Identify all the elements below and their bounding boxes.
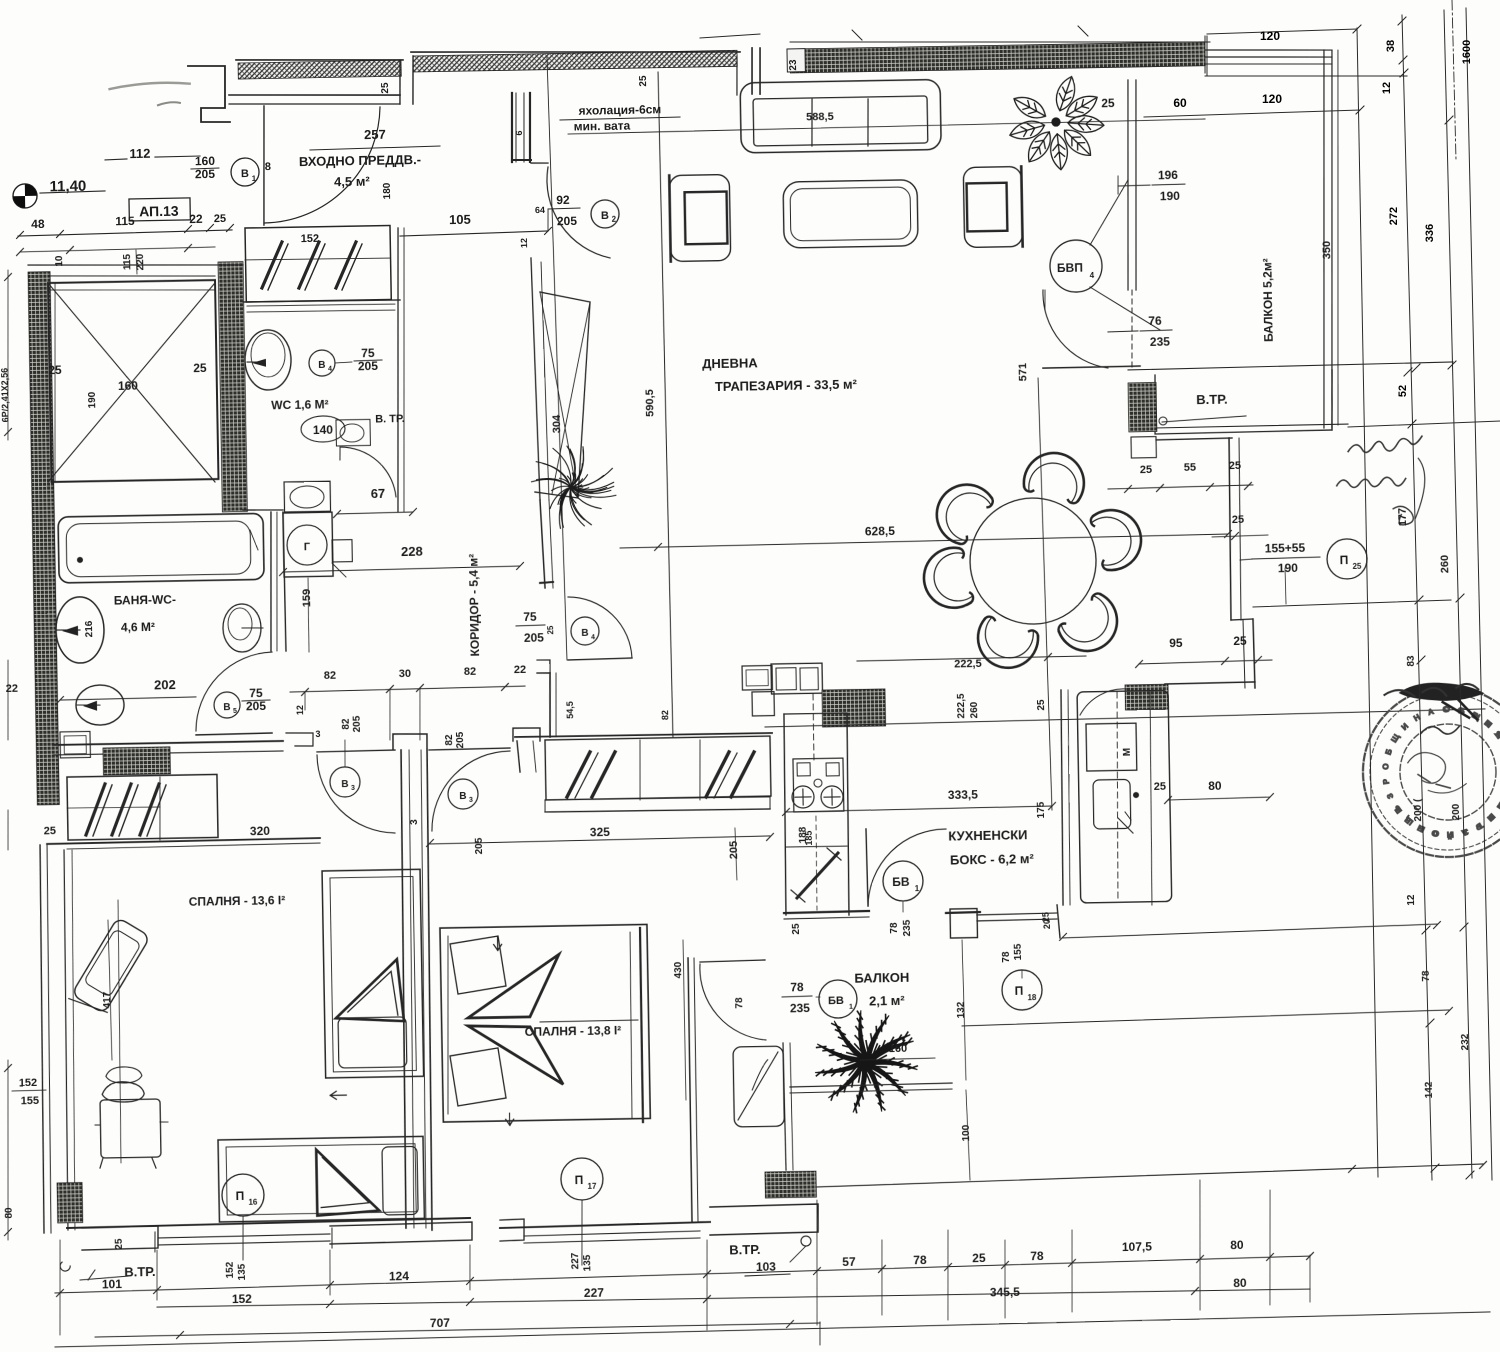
svg-text:80: 80 — [1208, 779, 1222, 793]
bath: toilet left — [55, 597, 104, 664]
dim row 25 55 25 — [1108, 485, 1253, 489]
svg-text:175: 175 — [1036, 801, 1047, 818]
svg-text:1: 1 — [849, 1004, 853, 1011]
svg-text:П: П — [235, 1189, 244, 1203]
balcony floor lines — [790, 1083, 952, 1087]
left bedroom door leaf+arc — [317, 750, 395, 752]
svg-text:25: 25 — [114, 1238, 125, 1250]
svg-text:333,5: 333,5 — [948, 788, 979, 803]
door circle BVP4 — [1050, 240, 1103, 293]
long bottom line y~1177 — [817, 1164, 1483, 1187]
svg-text:155+55: 155+55 — [1265, 541, 1306, 556]
kitchen: dashed axis in counter — [813, 694, 814, 760]
svg-text:80: 80 — [1233, 1276, 1247, 1290]
svg-text:60: 60 — [1173, 96, 1187, 110]
svg-text:10: 10 — [54, 255, 65, 267]
svg-text:180: 180 — [382, 182, 393, 199]
window ticks bottom1 — [154, 1232, 157, 1252]
svg-text:2,1 м²: 2,1 м² — [869, 993, 906, 1009]
svg-text:260: 260 — [1439, 555, 1451, 574]
bed vertical bedroom1 — [322, 869, 424, 1078]
door circle B3 right — [448, 779, 479, 810]
tick line under P25 — [1285, 568, 1286, 604]
door circle B2 — [591, 200, 619, 228]
svg-text:БАЛКОН: БАЛКОН — [854, 970, 909, 986]
svg-text:55: 55 — [1184, 462, 1196, 474]
svg-text:25: 25 — [638, 75, 649, 87]
svg-text:222,5: 222,5 — [954, 658, 982, 670]
shaft top lines — [28, 261, 243, 268]
svg-text:12: 12 — [1406, 894, 1417, 906]
svg-text:101: 101 — [102, 1277, 123, 1291]
small step right of bath wall — [286, 733, 313, 747]
svg-text:WC 1,6 М²: WC 1,6 М² — [271, 398, 329, 413]
svg-text:57: 57 — [842, 1255, 856, 1269]
door circle P18 — [1002, 970, 1043, 1011]
kitchen: west counter — [782, 714, 787, 915]
svg-text:350: 350 — [1321, 241, 1333, 260]
right grid vertical line C — [1444, 10, 1472, 1178]
bath: sink bottom — [60, 731, 90, 758]
svg-text:54,5: 54,5 — [565, 701, 575, 719]
svg-text:205: 205 — [455, 731, 466, 748]
curtain-wall tick top — [852, 30, 862, 40]
svg-text:1: 1 — [915, 884, 920, 893]
svg-text:ВХОДНО ПРЕДДВ.-: ВХОДНО ПРЕДДВ.- — [299, 152, 421, 169]
svg-text:25: 25 — [1036, 699, 1047, 711]
bath: lower toilet — [76, 685, 125, 726]
svg-text:80: 80 — [1230, 1238, 1244, 1252]
BVP4 leader lines — [1089, 180, 1129, 245]
axis line x658 (living west boundary) — [658, 72, 673, 737]
corridor sliding wardrobe — [545, 736, 771, 800]
wall: riser posts at x~755 — [751, 48, 753, 94]
svg-text:105: 105 — [449, 212, 471, 227]
bedroom1 armchair tilted — [69, 917, 152, 1019]
svg-text:590,5: 590,5 — [644, 389, 656, 417]
left armchair — [669, 174, 730, 261]
svg-text:417: 417 — [102, 991, 113, 1008]
balcony: slab edge line to right — [1205, 72, 1407, 79]
svg-text:78: 78 — [1030, 1249, 1044, 1263]
single bed bottom bedroom1 — [218, 1136, 424, 1222]
svg-text:235: 235 — [790, 1001, 811, 1015]
door B4 to living: leaf+arc — [568, 658, 632, 660]
svg-text:152: 152 — [232, 1292, 253, 1306]
bath: bidet — [223, 604, 262, 653]
living SE opening edge — [1043, 366, 1140, 368]
survey point symbol — [13, 184, 37, 208]
svg-text:12: 12 — [295, 705, 305, 715]
svg-text:430: 430 — [673, 961, 684, 978]
svg-text:202: 202 — [154, 677, 176, 692]
sliding wardrobe bold marks group1 — [566, 752, 591, 797]
svg-text:82: 82 — [341, 718, 352, 730]
svg-text:190: 190 — [1278, 561, 1299, 575]
svg-text:190: 190 — [1160, 189, 1181, 203]
ticks right grid — [1398, 17, 1406, 25]
svg-text:Г: Г — [304, 541, 311, 553]
svg-text:6Р/2,41Х2,56: 6Р/2,41Х2,56 — [0, 368, 10, 423]
svg-text:25: 25 — [546, 625, 555, 635]
svg-text:82: 82 — [660, 710, 670, 720]
balcony south wall step — [710, 1204, 819, 1235]
svg-text:БВ: БВ — [892, 875, 910, 889]
svg-text:115: 115 — [122, 253, 133, 270]
wardrobe bold marks — [85, 784, 106, 835]
partition wall between bedrooms — [398, 750, 410, 1228]
svg-text:3: 3 — [315, 729, 320, 739]
svg-text:120: 120 — [1262, 92, 1282, 106]
balcony: left glazing double line — [1124, 80, 1131, 290]
svg-text:В.ТР.: В.ТР. — [729, 1242, 761, 1258]
dim 628.5 line — [620, 534, 1228, 548]
svg-text:571: 571 — [1017, 363, 1029, 382]
dining table round — [969, 497, 1097, 625]
bedroom2 east wall — [687, 958, 692, 1222]
svg-text:8: 8 — [265, 161, 271, 173]
label 23 box on black band — [787, 49, 805, 72]
svg-text:23: 23 — [788, 59, 799, 71]
door circle P16 — [222, 1174, 265, 1217]
balcony hatch bottom — [765, 1171, 816, 1198]
svg-text:135: 135 — [237, 1263, 248, 1280]
svg-text:25: 25 — [193, 361, 207, 375]
bedroom2 west wall post — [513, 728, 540, 742]
right grid vertical line B — [1402, 15, 1432, 1180]
dim row above shaft — [20, 247, 215, 252]
svg-text:228: 228 — [401, 544, 423, 559]
svg-text:52: 52 — [1397, 385, 1409, 397]
svg-text:227: 227 — [584, 1286, 605, 1300]
VTR shaft right — [1154, 372, 1332, 434]
svg-text:БАЛКОН 5,2м²: БАЛКОН 5,2м² — [1260, 258, 1275, 342]
axis line x547 — [547, 57, 567, 660]
svg-text:200: 200 — [1451, 803, 1462, 820]
dim row A bottom — [55, 1256, 1311, 1293]
svg-text:25: 25 — [1041, 912, 1051, 922]
svg-text:120: 120 — [1260, 29, 1280, 43]
svg-text:В: В — [601, 210, 609, 222]
svg-text:4: 4 — [1090, 271, 1095, 280]
kitchen: door leaf+arc BV1 — [866, 829, 868, 906]
kitchen: stove — [793, 758, 844, 812]
corridor: boiler box — [283, 512, 333, 577]
svg-text:18: 18 — [1027, 993, 1037, 1002]
svg-text:БВП: БВП — [1057, 261, 1083, 275]
door B1 leaf and arc — [262, 106, 266, 225]
svg-text:СПАЛНЯ - 13,6 I²: СПАЛНЯ - 13,6 I² — [189, 893, 286, 909]
svg-text:25: 25 — [1101, 96, 1115, 110]
coffee table — [783, 180, 918, 248]
right grid dash-dot line — [1452, 0, 1456, 160]
bedroom1 small table with pots — [100, 1099, 161, 1158]
long line y~722 — [765, 709, 1485, 727]
stamp circle — [1362, 686, 1500, 859]
right bedroom door leaf+arc — [429, 748, 510, 750]
svg-text:22: 22 — [189, 212, 203, 226]
svg-text:В: В — [241, 168, 249, 180]
svg-text:4: 4 — [591, 634, 595, 641]
svg-text:3: 3 — [409, 819, 420, 825]
bottom vertical dim lines — [58, 1240, 61, 1335]
wall: thin lines above black band — [790, 35, 1210, 50]
svg-text:38: 38 — [1385, 40, 1397, 52]
svg-text:82: 82 — [324, 670, 336, 682]
svg-text:78: 78 — [790, 980, 804, 994]
wc: sink — [284, 481, 331, 512]
bath: south wall — [53, 741, 283, 745]
bedroom1 inner axis line — [116, 900, 122, 1163]
kitchen: north hatch block W9 — [822, 689, 886, 727]
right armchair — [963, 166, 1022, 247]
svg-text:25: 25 — [791, 923, 802, 935]
svg-text:25: 25 — [1232, 514, 1244, 526]
svg-text:196: 196 — [1158, 168, 1179, 182]
svg-text:325: 325 — [590, 825, 611, 839]
wc: small fixtures right — [336, 419, 370, 446]
svg-text:707: 707 — [430, 1316, 451, 1330]
svg-text:В: В — [318, 360, 325, 371]
svg-text:216: 216 — [84, 620, 95, 637]
bath: tub — [58, 513, 264, 583]
bedroom2 south wall — [500, 1222, 710, 1228]
bottom-most long line — [55, 1312, 1490, 1347]
bedroom1 west wall — [37, 845, 47, 1233]
svg-text:25: 25 — [380, 82, 391, 94]
dim row B bottom — [157, 1287, 1310, 1309]
svg-text:159: 159 — [301, 589, 313, 608]
svg-text:227: 227 — [570, 1252, 581, 1269]
pillow right — [382, 1146, 418, 1215]
wall: left outer hatched wall — [28, 272, 59, 805]
svg-text:64: 64 — [535, 205, 545, 215]
svg-text:235: 235 — [1150, 335, 1171, 349]
svg-text:22: 22 — [514, 664, 526, 676]
svg-text:12: 12 — [1381, 82, 1393, 94]
bed headboard right — [640, 928, 644, 1122]
svg-text:25: 25 — [1140, 464, 1152, 476]
svg-text:В. ТР.: В. ТР. — [375, 413, 405, 426]
svg-text:78: 78 — [734, 997, 745, 1009]
svg-text:П: П — [1015, 984, 1024, 998]
stamp handwriting — [1384, 684, 1478, 697]
kitchen: VTR small rects left — [742, 666, 772, 691]
right grid vertical line D — [1466, 8, 1492, 1180]
svg-text:25: 25 — [1154, 781, 1166, 793]
svg-text:30: 30 — [399, 668, 411, 680]
smudge top-left — [110, 82, 190, 89]
wall: north black wall band (living room) — [790, 42, 1205, 73]
svg-text:588,5: 588,5 — [806, 111, 834, 123]
svg-text:П: П — [1340, 553, 1349, 567]
svg-text:83: 83 — [1406, 655, 1417, 667]
svg-text:В.ТР.: В.ТР. — [1196, 392, 1228, 408]
balcony: right railing double line — [1317, 50, 1330, 428]
handwriting top right — [1336, 436, 1426, 526]
right grid vertical line A — [1357, 28, 1378, 1177]
wc: door arc bottom — [340, 446, 396, 498]
svg-text:205: 205 — [352, 715, 363, 732]
balcony BV1 circle — [819, 980, 858, 1019]
svg-text:107,5: 107,5 — [1122, 1240, 1153, 1255]
dim line from 105 to B2 — [547, 210, 550, 231]
pillows left — [450, 936, 506, 994]
balcony door arc at living SE — [1043, 289, 1108, 369]
plant top-right leaves — [1007, 73, 1106, 171]
svg-text:140: 140 — [313, 423, 334, 437]
svg-text:95: 95 — [1169, 636, 1183, 650]
entry wardrobe rect — [245, 226, 391, 303]
dim row 48 115 22 25 — [18, 230, 232, 236]
wall: top wall right of entry - jog down — [511, 93, 513, 162]
dim 95 25 row — [1139, 660, 1272, 664]
balcony: wall end vertical — [1206, 36, 1207, 76]
bed inner lines — [445, 936, 451, 1114]
top right dim lines — [1207, 29, 1357, 34]
wc: room outline — [243, 299, 400, 302]
kitchen: lower cabinet with slash — [786, 846, 847, 847]
wardrobe bath-south rect — [67, 774, 218, 840]
svg-text:152: 152 — [301, 233, 320, 245]
corridor south wall step — [537, 660, 550, 673]
kitchen: east tall counter — [1059, 690, 1064, 905]
dim row 82 30 82 22 — [290, 686, 525, 692]
hall closet leaning rect — [531, 291, 593, 499]
svg-text:КОРИДОР - 5,4 м²: КОРИДОР - 5,4 м² — [466, 554, 482, 657]
svg-text:67: 67 — [371, 486, 386, 501]
svg-text:160: 160 — [118, 379, 139, 393]
living SE corner wall steps — [1156, 438, 1232, 440]
svg-text:БАНЯ-WC-: БАНЯ-WC- — [114, 593, 176, 608]
blanket big triangles — [467, 954, 560, 1018]
svg-text:4: 4 — [328, 366, 332, 373]
svg-text:272: 272 — [1388, 207, 1400, 225]
svg-text:320: 320 — [250, 824, 271, 838]
label AP.13 box — [129, 198, 190, 221]
svg-text:304: 304 — [551, 414, 563, 433]
dining chairs — [1021, 446, 1091, 505]
kitchen: sink unit top — [771, 663, 823, 694]
svg-text:АП.13: АП.13 — [139, 203, 179, 220]
svg-text:205: 205 — [524, 631, 545, 645]
balcony east rail — [783, 1043, 786, 1170]
dim row C 707 — [95, 1323, 820, 1337]
svg-text:190: 190 — [87, 391, 98, 408]
kitchen: sink square — [1093, 779, 1131, 829]
svg-text:82: 82 — [444, 734, 455, 746]
svg-text:П: П — [575, 1173, 584, 1187]
right horizontal y603 — [1253, 600, 1451, 607]
svg-text:48: 48 — [31, 217, 45, 231]
door B2 arc — [547, 166, 610, 259]
svg-text:92: 92 — [556, 193, 570, 207]
left dim ticks — [5, 270, 11, 440]
svg-text:112: 112 — [129, 146, 150, 161]
wall: top middle window band — [413, 50, 737, 72]
wall: gap post between bands — [399, 60, 401, 104]
blanket triangle bottom bed — [316, 1149, 379, 1216]
svg-text:235: 235 — [902, 919, 913, 936]
door circle B4 upper — [309, 350, 335, 376]
door circle P17 — [561, 1158, 604, 1201]
svg-text:260: 260 — [969, 701, 980, 718]
door circle B5 — [214, 692, 240, 718]
svg-text:78: 78 — [1001, 951, 1012, 963]
kitchen arc top east — [1080, 689, 1129, 715]
svg-text:25: 25 — [972, 1251, 986, 1265]
balcony: top railing lines — [1205, 48, 1332, 53]
bedroom1 north wall — [47, 838, 320, 844]
kitchen: dashed line east — [1114, 692, 1120, 900]
svg-text:155: 155 — [21, 1095, 40, 1107]
svg-text:В: В — [341, 779, 348, 790]
door circle B3 left — [330, 767, 361, 798]
svg-text:135: 135 — [582, 1254, 593, 1271]
svg-text:12: 12 — [519, 238, 529, 248]
kitchen: south wall east part with window — [946, 911, 980, 914]
svg-text:205: 205 — [728, 841, 740, 860]
wc: oval label 140 — [301, 416, 345, 443]
svg-text:ТРАПЕЗАРИЯ - 33,5 м²: ТРАПЕЗАРИЯ - 33,5 м² — [715, 377, 858, 394]
bed pillow bottom — [338, 1017, 407, 1068]
svg-text:124: 124 — [389, 1269, 410, 1283]
double bed bedroom2 — [440, 924, 650, 1122]
svg-text:25: 25 — [214, 213, 226, 225]
svg-text:5: 5 — [233, 708, 237, 715]
right horizontal y421 — [1348, 421, 1500, 427]
svg-text:232: 232 — [1460, 1033, 1471, 1050]
corridor right wall lower with cap — [540, 500, 545, 588]
svg-text:В: В — [223, 702, 230, 713]
elevator shaft box with X — [48, 280, 218, 482]
svg-text:3: 3 — [351, 785, 355, 792]
svg-text:О: О — [1381, 763, 1391, 770]
svg-text:132: 132 — [956, 1001, 967, 1018]
center pillar between doors — [393, 733, 427, 749]
svg-text:25: 25 — [1233, 634, 1247, 648]
bath: east wall — [269, 512, 274, 651]
svg-text:205: 205 — [557, 214, 578, 228]
balcony door leaf+arc bedroom2 — [700, 960, 765, 962]
svg-text:78: 78 — [889, 922, 900, 934]
svg-text:СПАЛНЯ - 13,8 I²: СПАЛНЯ - 13,8 I² — [525, 1023, 622, 1039]
wall: entry north inner wall lines — [229, 92, 400, 98]
balcony 5.2 floor bottom edge — [1128, 362, 1453, 370]
svg-text:КУХНЕНСКИ: КУХНЕНСКИ — [948, 827, 1027, 843]
svg-text:336: 336 — [1424, 224, 1436, 242]
svg-text:16: 16 — [248, 1198, 258, 1207]
svg-text:115: 115 — [115, 214, 135, 228]
bed blanket triangles — [335, 959, 404, 1022]
svg-text:М: М — [1122, 748, 1133, 757]
dim line y~1023 right — [962, 1010, 1449, 1026]
svg-text:В: В — [459, 791, 466, 802]
stamp dark blob top — [1398, 682, 1485, 721]
wc: toilet — [244, 330, 291, 391]
svg-text:БВ: БВ — [828, 995, 844, 1007]
svg-text:ДНЕВНА: ДНЕВНА — [702, 356, 758, 372]
svg-text:177: 177 — [1397, 508, 1409, 527]
svg-text:185: 185 — [804, 830, 814, 845]
dim 222.5 line — [857, 656, 1086, 661]
dim line y~930 right — [1063, 924, 1437, 938]
arrow mark near bed — [330, 1091, 346, 1099]
svg-text:78: 78 — [913, 1253, 927, 1267]
svg-text:мин. вата: мин. вата — [574, 119, 631, 134]
sliding wardrobe bold marks group2 — [705, 752, 730, 797]
dim line through sofa + 588.5 — [568, 119, 1205, 134]
